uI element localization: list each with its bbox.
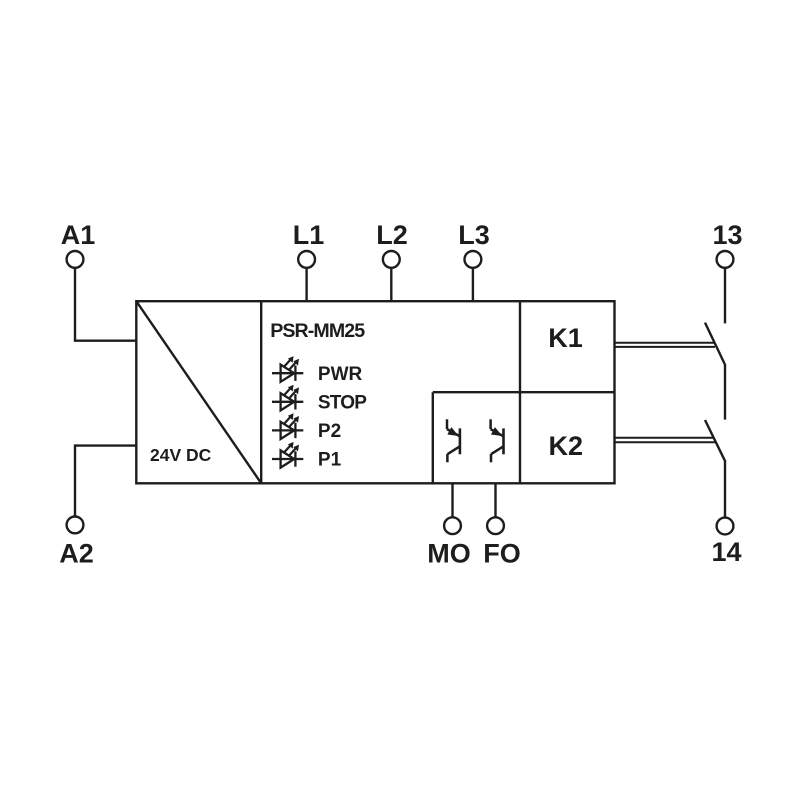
wire L1 (305, 268, 307, 301)
svg-text:L1: L1 (293, 220, 325, 250)
power supply diagonal (136, 301, 261, 483)
terminal A1 (67, 251, 84, 268)
svg-text:STOP: STOP (318, 393, 367, 414)
svg-text:K2: K2 (549, 431, 584, 461)
svg-text:24V DC: 24V DC (150, 445, 212, 465)
terminal A2 (67, 517, 84, 534)
K2 actuator link lower line (615, 441, 716, 443)
contact K1 arm (705, 323, 725, 364)
semiconductor output box (432, 392, 434, 483)
K2 actuator link upper line (615, 437, 715, 439)
svg-text:A2: A2 (59, 539, 94, 569)
wire A2 to block (75, 446, 136, 517)
wire FO (494, 483, 496, 517)
svg-text:MO: MO (427, 539, 471, 569)
contact K2 arm (705, 420, 725, 460)
main block PSR-MM25 outline (136, 301, 614, 483)
terminal MO (444, 517, 461, 534)
power supply section divider (260, 301, 262, 483)
LED STOP symbol (272, 385, 303, 411)
wire between contacts (724, 364, 726, 420)
svg-text:L3: L3 (458, 220, 490, 250)
LED PWR symbol (272, 356, 303, 382)
relay column divider (519, 301, 521, 483)
svg-text:14: 14 (711, 537, 741, 567)
svg-text:PSR-MM25: PSR-MM25 (270, 320, 365, 342)
wire L2 (390, 268, 392, 301)
wire L3 (472, 268, 474, 301)
LED P2 symbol (272, 413, 303, 439)
wire MO (451, 483, 453, 517)
svg-text:P2: P2 (318, 421, 341, 442)
svg-text:P1: P1 (318, 450, 342, 471)
svg-text:A1: A1 (61, 220, 96, 250)
terminal 13 (717, 251, 734, 268)
wire 13 down (724, 268, 726, 324)
K1/K2 divider (433, 391, 615, 393)
terminal 14 (717, 518, 734, 535)
terminal L1 (298, 251, 315, 268)
LED P1 symbol (272, 442, 303, 468)
wire A1 to block (75, 268, 136, 341)
output transistor FO (491, 419, 504, 462)
terminal FO (487, 517, 504, 534)
svg-text:PWR: PWR (318, 364, 363, 385)
svg-text:FO: FO (483, 539, 521, 569)
svg-text:13: 13 (712, 220, 742, 250)
svg-text:K1: K1 (548, 323, 583, 353)
wire contact to 14 (724, 460, 726, 518)
terminal L2 (383, 251, 400, 268)
terminal L3 (465, 251, 482, 268)
svg-text:L2: L2 (376, 220, 408, 250)
output transistor MO (447, 419, 460, 462)
K1 actuator link upper line (615, 342, 715, 344)
K1 actuator link lower line (615, 346, 716, 348)
